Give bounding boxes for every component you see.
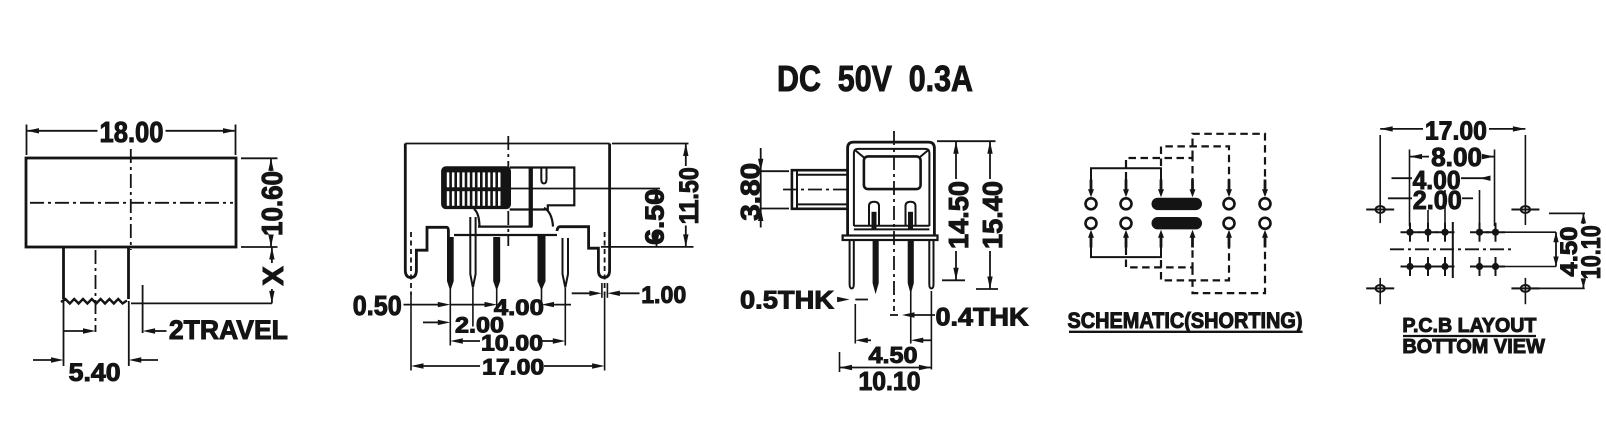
knob left edge (62, 247, 65, 299)
pcb pin pad col 1 row 1 (1401, 231, 1420, 233)
left peg hidden centerline (410, 232, 412, 295)
ext pin row top right (1505, 231, 1556, 233)
ext line base bottom right (601, 246, 694, 248)
pcb pin pad col 1 row 2 (1401, 266, 1420, 268)
dimension 10.60 (241, 157, 278, 159)
pcb dimension 8.00 (1409, 150, 1411, 227)
svg-text:1.00: 1.00 (641, 282, 686, 309)
svg-text:10.00: 10.00 (481, 331, 543, 356)
extension line knob right (128, 301, 130, 366)
svg-text:0.5THK: 0.5THK (740, 286, 834, 314)
front view horizontal centerline (30, 202, 233, 204)
knob right edge (127, 247, 130, 299)
right mounting leg (929, 240, 933, 289)
mount bottom-right vertical (1524, 278, 1526, 304)
shaft (792, 170, 848, 209)
pedestal right curve (544, 208, 553, 227)
inner corner diagonal right (919, 151, 928, 159)
base line 2 (854, 228, 930, 230)
pcb pin pad col 4 row 2 (1470, 266, 1489, 268)
shorting slider bar top (1152, 198, 1203, 210)
dimension 5.40 (33, 359, 52, 361)
front view body (26, 158, 236, 247)
svg-text:15.40: 15.40 (977, 181, 1008, 249)
schematic wiper arrow bottom column 2 (1125, 237, 1128, 248)
schematic wiper arrow top column 4 (1191, 180, 1194, 191)
left mounting leg (850, 240, 854, 289)
pcb pin pad col 3 row 2 (1436, 266, 1455, 268)
shaft centerline (783, 189, 851, 191)
pin 4 (black) (539, 235, 545, 288)
svg-text:3.80: 3.80 (735, 163, 765, 221)
front view vertical centerline (130, 149, 132, 250)
dashed link bottom col4-col6 (1193, 248, 1266, 294)
pedestal left curve (474, 209, 480, 227)
profile vertical centerline (893, 131, 895, 311)
dashed link bottom col3-col5 (1161, 248, 1229, 281)
svg-text:6.50: 6.50 (640, 189, 670, 245)
base top line (454, 234, 557, 236)
schematic caption underline (1069, 331, 1303, 333)
dimension 2.00 (423, 321, 438, 323)
svg-text:10.10: 10.10 (859, 366, 921, 396)
stem notch (541, 168, 546, 184)
svg-text:11.50: 11.50 (674, 167, 704, 224)
dimension 15.40 (989, 141, 991, 179)
svg-text:17.00: 17.00 (482, 355, 544, 380)
schematic contact circles column 2 (1121, 198, 1132, 209)
pcb dimension 4.50 (1555, 232, 1557, 266)
pcb dimension 17.00 (1380, 128, 1423, 130)
schematic wiper arrow bottom column 4 (1191, 237, 1194, 248)
svg-text:DC 50V 0.3A: DC 50V 0.3A (777, 58, 973, 99)
pcb caption underline (1403, 335, 1536, 337)
pin 5 (outline) (563, 238, 569, 288)
pcb pin pad col 4 row 1 (1470, 231, 1489, 233)
right pin profile (909, 240, 913, 291)
ext pin5 (564, 288, 566, 346)
svg-text:0.50: 0.50 (353, 290, 402, 321)
schematic wiper arrow bottom column 5 (1228, 237, 1231, 248)
dimension 1.00 (572, 292, 590, 294)
dimension 18.00 (26, 125, 28, 156)
knurled knob (442, 168, 509, 208)
base line 1 (854, 225, 930, 227)
extension line knob bottom to X dim (131, 302, 272, 304)
pcb pin pad col 5 row 2 (1486, 266, 1505, 268)
dashed link top col3-col5 (1161, 146, 1229, 179)
ext pin3 (496, 288, 498, 309)
dimension 4.00 (450, 304, 484, 306)
side view vertical centerline (507, 136, 509, 246)
schematic wiper arrow top column 6 (1264, 180, 1267, 191)
solid link bottom col1-col3 (1091, 248, 1161, 258)
extension line travel (142, 285, 144, 333)
dimension 11.50 (612, 143, 689, 145)
ext right peg center (604, 295, 606, 371)
terminal left (869, 202, 879, 226)
pcb horizontal centerline (1390, 248, 1513, 250)
pcb dimension 2.00 (1427, 210, 1429, 226)
schematic contact circles column 1 (1086, 198, 1097, 209)
dimension 6.50 (510, 188, 660, 190)
pcb center vertical mark (1452, 222, 1454, 278)
left pin profile (874, 240, 878, 291)
mount hole bottom-left (1366, 287, 1394, 289)
svg-text:X: X (258, 266, 290, 286)
svg-text:BOTTOM VIEW: BOTTOM VIEW (1402, 336, 1545, 358)
terminal right (906, 202, 916, 226)
stem bar (529, 168, 533, 227)
ext right peg right edge (606, 283, 608, 298)
ext pin row bottom right (1505, 266, 1556, 268)
mount hole bottom-right (1511, 287, 1539, 289)
schematic wiper arrow top column 2 (1125, 180, 1128, 191)
schematic wiper arrow bottom column 6 (1264, 237, 1267, 248)
dimension 10.10 profile (839, 352, 841, 372)
mount hole top-right (1511, 209, 1539, 211)
ext pin4 (541, 288, 543, 309)
schematic wiper arrow bottom column 3 (1160, 237, 1163, 248)
pcb pin pad col 2 row 1 (1419, 231, 1438, 233)
inner corner diagonal left (856, 151, 865, 159)
schematic contact circles column 5 (1224, 198, 1235, 209)
pin 2 (outline) (470, 217, 475, 288)
dashed link bottom col2-col4 (1126, 248, 1193, 268)
schematic wiper arrow top column 5 (1228, 180, 1231, 191)
pin 3 (black) (494, 238, 499, 288)
svg-text:0.4THK: 0.4THK (936, 304, 1029, 332)
pcb pin pad col 2 row 2 (1419, 266, 1438, 268)
mount bottom-left vertical (1379, 278, 1381, 304)
svg-text:SCHEMATIC(SHORTING): SCHEMATIC(SHORTING) (1068, 308, 1303, 333)
mount hole top-left (1366, 209, 1394, 211)
label 0.4THK (890, 314, 898, 316)
svg-text:4.50: 4.50 (869, 342, 918, 368)
svg-text:P.C.B LAYOUT: P.C.B LAYOUT (1402, 315, 1536, 337)
svg-text:18.00: 18.00 (100, 117, 164, 149)
dimension X (271, 247, 273, 263)
svg-text:10.10: 10.10 (1576, 225, 1606, 279)
dashed link top col2-col4 (1126, 158, 1193, 180)
ext pin1 (449, 288, 451, 346)
ext left peg center (410, 295, 412, 371)
svg-text:10.60: 10.60 (257, 171, 289, 236)
knob top view rect (864, 156, 921, 189)
svg-text:14.50: 14.50 (943, 181, 974, 249)
base upper line under knob (478, 226, 532, 228)
dimension 17.00 (411, 363, 424, 368)
knob break wavy line (61, 299, 127, 304)
knob stem block (510, 168, 575, 210)
right peg hidden centerline (604, 232, 606, 295)
schematic wiper arrow bottom column 1 (1090, 237, 1093, 248)
profile body outer (848, 142, 935, 235)
svg-text:5.40: 5.40 (69, 359, 121, 387)
schematic wiper arrow top column 1 (1090, 180, 1093, 191)
dimension 2TRAVEL (64, 330, 84, 332)
pin 1 (black) (448, 238, 453, 288)
side view body outline (405, 143, 609, 145)
pcb dimension 4.00 (1444, 190, 1446, 226)
ext pin2 (472, 288, 474, 327)
svg-text:2.00: 2.00 (1413, 185, 1462, 215)
profile body inner (854, 149, 930, 226)
dimension 3.80 (761, 170, 789, 172)
solid link top col1-col3 (1091, 168, 1161, 179)
pcb pin pad col 5 row 1 (1486, 231, 1505, 233)
ext mount left vertical (1379, 135, 1381, 223)
dimension 10.00 (450, 338, 463, 343)
schematic contact circles column 6 (1260, 198, 1271, 209)
dimension 4.50 profile (854, 304, 856, 344)
ext mount right vertical (1524, 135, 1526, 225)
svg-text:2TRAVEL: 2TRAVEL (169, 315, 288, 345)
extension line knob left (63, 301, 65, 366)
pcb dimension 10.10 (1549, 212, 1585, 214)
pcb pin pad col 3 row 1 (1436, 231, 1455, 233)
ext right peg left edge (601, 283, 603, 298)
bottom rim flange (843, 236, 938, 241)
dashed link top col4-col6 (1193, 134, 1266, 180)
shorting slider bar bottom (1152, 217, 1203, 229)
schematic wiper arrow top column 3 (1160, 180, 1163, 191)
dimension 14.50 (937, 140, 996, 142)
knob centerline (95, 250, 97, 332)
